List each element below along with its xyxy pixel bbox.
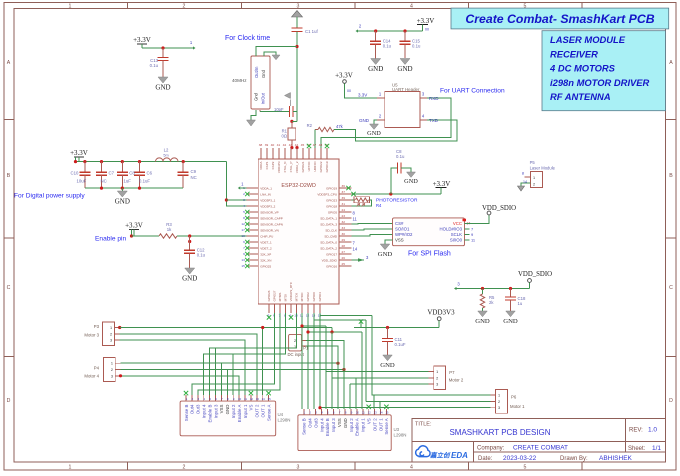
svg-text:2: 2	[533, 183, 535, 187]
svg-text:4: 4	[410, 464, 413, 470]
svg-text:VDD3P3: VDD3P3	[277, 161, 281, 173]
svg-text:SENSOR_CAPN: SENSOR_CAPN	[260, 223, 283, 227]
svg-text:Out3: Out3	[196, 404, 201, 414]
svg-text:VSS: VSS	[219, 405, 224, 414]
svg-text:2: 2	[183, 464, 186, 470]
svg-text:Out/In: Out/In	[254, 66, 259, 78]
svg-text:SD_DATA_1: SD_DATA_1	[320, 217, 337, 221]
svg-text:CAP2: CAP2	[271, 161, 275, 169]
svg-text:Out3: Out3	[313, 418, 318, 428]
svg-text:REV:: REV:	[629, 428, 643, 434]
svg-text:R4: R4	[376, 203, 382, 208]
svg-text:Sheet:: Sheet:	[628, 446, 646, 452]
svg-text:VDDA_2: VDDA_2	[295, 161, 299, 173]
svg-text:41: 41	[277, 143, 281, 147]
svg-text:OUT 1: OUT 1	[378, 418, 383, 431]
svg-text:SD_CMD: SD_CMD	[324, 235, 338, 239]
svg-text:0.1u: 0.1u	[412, 43, 421, 48]
svg-text:1: 1	[69, 3, 72, 9]
svg-text:29: 29	[342, 238, 346, 242]
svg-text:NC: NC	[191, 175, 197, 180]
svg-text:U3: U3	[394, 427, 400, 432]
svg-text:TXD: TXD	[429, 118, 439, 123]
svg-text:OUT 2: OUT 2	[255, 404, 260, 417]
svg-text:3: 3	[111, 374, 113, 378]
svg-text:VSS: VSS	[337, 418, 342, 427]
svg-text:32: 32	[342, 220, 346, 224]
svg-text:Motor 2: Motor 2	[449, 378, 464, 383]
svg-text:SD_DATA_2: SD_DATA_2	[320, 247, 337, 251]
svg-text:GND: GND	[182, 274, 197, 282]
svg-text:3: 3	[297, 3, 300, 9]
svg-text:C6: C6	[147, 171, 153, 176]
svg-text:GND: GND	[155, 83, 170, 91]
svg-text:17: 17	[241, 228, 245, 232]
svg-text:GPIO4: GPIO4	[318, 292, 322, 302]
svg-text:+3.3V: +3.3V	[335, 72, 353, 80]
svg-text:1: 1	[436, 370, 438, 374]
svg-text:MTDO: MTDO	[300, 292, 304, 301]
svg-text:VDD3P3_2: VDD3P3_2	[260, 205, 275, 209]
svg-text:38: 38	[259, 143, 263, 147]
svg-text:47: 47	[313, 143, 317, 147]
svg-text:0.1u: 0.1u	[396, 154, 405, 159]
svg-text:C: C	[7, 285, 11, 291]
svg-text:10uF: 10uF	[77, 179, 87, 184]
svg-text:A: A	[669, 60, 673, 66]
svg-text:31: 31	[342, 202, 346, 206]
svg-text:12: 12	[250, 397, 254, 401]
svg-text:8: 8	[243, 216, 245, 220]
svg-text:C: C	[669, 285, 673, 291]
svg-text:Sense A: Sense A	[266, 405, 271, 421]
svg-text:0.1uF: 0.1uF	[139, 179, 150, 184]
svg-text:For UART Connection: For UART Connection	[440, 88, 505, 95]
svg-text:Motor 4: Motor 4	[84, 374, 99, 379]
svg-text:C7: C7	[109, 171, 115, 176]
svg-text:10pF: 10pF	[274, 107, 284, 112]
svg-text:13: 13	[256, 397, 260, 401]
svg-text:15: 15	[385, 411, 389, 415]
svg-text:GPIO23: GPIO23	[326, 199, 337, 203]
svg-text:+3.3V: +3.3V	[417, 17, 435, 25]
svg-text:CREATE COMBAT: CREATE COMBAT	[513, 445, 568, 452]
svg-text:32K_XP: 32K_XP	[260, 253, 271, 257]
svg-text:5m: 5m	[163, 154, 168, 158]
svg-text:GND: GND	[380, 362, 395, 369]
svg-text:44: 44	[295, 143, 299, 147]
svg-text:VDDA_1: VDDA_1	[260, 187, 272, 191]
svg-text:Input 3: Input 3	[331, 418, 336, 432]
svg-text:+3.3V: +3.3V	[133, 36, 151, 44]
svg-text:0Ω: 0Ω	[282, 134, 287, 139]
svg-text:EDA: EDA	[451, 451, 468, 460]
svg-text:GND: GND	[359, 118, 370, 123]
svg-text:Company:: Company:	[477, 446, 505, 452]
svg-text:A: A	[7, 60, 11, 66]
svg-text:4: 4	[243, 204, 245, 208]
svg-text:GPIO21: GPIO21	[301, 161, 305, 172]
svg-text:Out4: Out4	[308, 418, 313, 428]
svg-text:15: 15	[241, 264, 245, 268]
svg-text:1uF: 1uF	[124, 179, 132, 184]
svg-text:GND: GND	[404, 178, 418, 185]
svg-text:GND: GND	[378, 251, 393, 258]
svg-text:23: 23	[342, 214, 346, 218]
svg-text:13: 13	[374, 411, 378, 415]
svg-text:Input 4: Input 4	[202, 404, 207, 418]
svg-text:U4: U4	[278, 412, 284, 417]
svg-text:0.1uF: 0.1uF	[395, 342, 406, 347]
svg-text:Drawn By:: Drawn By:	[560, 456, 588, 462]
svg-text:GPIO19: GPIO19	[326, 187, 337, 191]
svg-text:24: 24	[342, 208, 346, 212]
svg-text:8: 8	[522, 172, 524, 176]
svg-text:GPIO25: GPIO25	[260, 265, 271, 269]
svg-text:SMASHKART PCB DESIGN: SMASHKART PCB DESIGN	[449, 428, 550, 437]
svg-text:GPIO16: GPIO16	[326, 265, 337, 269]
svg-text:39: 39	[342, 196, 346, 200]
svg-text:P6: P6	[511, 395, 517, 400]
svg-text:11: 11	[353, 217, 358, 222]
svg-text:SO/IO1: SO/IO1	[395, 227, 410, 232]
svg-text:1u: 1u	[518, 301, 523, 306]
svg-text:For SPI Flash: For SPI Flash	[408, 251, 451, 258]
svg-text:Gnd: Gnd	[261, 69, 266, 78]
svg-text:XTAL_P: XTAL_P	[289, 162, 293, 173]
svg-text:Out4: Out4	[190, 404, 195, 414]
svg-text:15: 15	[268, 397, 272, 401]
svg-text:Create Combat- SmashKart PCB: Create Combat- SmashKart PCB	[465, 12, 654, 26]
svg-text:Enable B: Enable B	[325, 418, 330, 436]
svg-text:VS: VS	[367, 418, 372, 424]
svg-text:UART Header: UART Header	[392, 87, 420, 92]
svg-text:Enable A: Enable A	[237, 405, 242, 423]
svg-text:Sense B: Sense B	[302, 418, 307, 435]
svg-text:1: 1	[110, 326, 112, 330]
svg-text:Enable pin: Enable pin	[95, 236, 126, 243]
svg-text:GND: GND	[503, 318, 518, 325]
svg-text:47k: 47k	[336, 124, 344, 129]
svg-text:ESP32-D2WD: ESP32-D2WD	[281, 183, 316, 189]
svg-text:Motor 1: Motor 1	[510, 404, 525, 409]
svg-text:GPIO27: GPIO27	[273, 290, 277, 301]
svg-text:+3.3V: +3.3V	[433, 180, 451, 188]
svg-text:RF ANTENNA: RF ANTENNA	[550, 91, 611, 102]
svg-text:Sense A: Sense A	[384, 418, 389, 434]
svg-text:VS: VS	[249, 405, 254, 411]
svg-text:VDD_SDIO: VDD_SDIO	[322, 259, 338, 263]
svg-text:SENSOR_VN: SENSOR_VN	[260, 229, 279, 233]
svg-text:B: B	[7, 173, 11, 179]
svg-text:MTDI: MTDI	[284, 294, 288, 301]
svg-text:2: 2	[294, 339, 296, 343]
svg-text:VDD3P3_1: VDD3P3_1	[260, 199, 275, 203]
svg-text:Sense B: Sense B	[184, 405, 189, 422]
svg-text:40MHz: 40MHz	[232, 78, 247, 83]
svg-text:3: 3	[110, 339, 112, 343]
svg-text:11: 11	[244, 397, 247, 401]
svg-text:GPIO19: GPIO19	[325, 161, 329, 172]
svg-text:U0RXD: U0RXD	[313, 161, 317, 172]
svg-text:1: 1	[111, 362, 113, 366]
svg-text:D: D	[669, 398, 673, 404]
svg-text:2: 2	[243, 192, 245, 196]
svg-text:1.0: 1.0	[648, 427, 657, 434]
svg-text:VDD3V3: VDD3V3	[427, 309, 455, 317]
svg-text:39: 39	[265, 143, 269, 147]
svg-text:1: 1	[498, 394, 500, 398]
svg-text:28: 28	[342, 244, 346, 248]
svg-text:VDET_2: VDET_2	[260, 247, 272, 251]
svg-text:3: 3	[436, 383, 438, 387]
svg-text:VSS: VSS	[395, 238, 404, 243]
svg-text:36: 36	[342, 184, 346, 188]
svg-text:i298n MOTOR DRIVER: i298n MOTOR DRIVER	[550, 77, 650, 88]
svg-text:LASER MODULE: LASER MODULE	[550, 34, 626, 45]
svg-text:Input 2: Input 2	[349, 418, 354, 432]
svg-text:SD_CLK: SD_CLK	[325, 229, 337, 233]
svg-text:1: 1	[69, 464, 72, 470]
svg-text:2: 2	[436, 376, 438, 380]
svg-text:GPIO18: GPIO18	[326, 205, 337, 209]
svg-text:For Digital power supply: For Digital power supply	[14, 193, 85, 200]
svg-text:嘉立创: 嘉立创	[429, 452, 451, 460]
svg-text:GPIO26: GPIO26	[267, 290, 271, 301]
svg-text:HOLD#/IO3: HOLD#/IO3	[440, 227, 463, 232]
svg-text:45: 45	[301, 143, 305, 147]
svg-text:LNA_IN: LNA_IN	[260, 193, 271, 197]
svg-text:SD_DATA_0: SD_DATA_0	[320, 241, 337, 245]
svg-text:11: 11	[362, 411, 365, 415]
svg-text:RXD: RXD	[429, 96, 439, 101]
svg-text:P4: P4	[94, 366, 100, 371]
svg-text:R2: R2	[307, 123, 313, 128]
svg-text:Input 3: Input 3	[213, 404, 218, 418]
svg-text:SENSOR_VP: SENSOR_VP	[260, 211, 278, 215]
svg-text:10: 10	[241, 234, 245, 238]
svg-text:2: 2	[498, 400, 500, 404]
svg-text:VDD_SDIO: VDD_SDIO	[482, 205, 516, 212]
svg-text:CAP1: CAP1	[265, 161, 269, 169]
svg-text:1: 1	[533, 176, 535, 180]
svg-text:2: 2	[111, 368, 113, 372]
svg-text:Laser Module: Laser Module	[530, 165, 556, 170]
svg-text:32K_XN: 32K_XN	[260, 259, 271, 263]
svg-text:12: 12	[241, 222, 245, 226]
svg-text:GND: GND	[475, 318, 490, 325]
svg-text:GPIO0: GPIO0	[312, 292, 316, 302]
svg-text:In/Out: In/Out	[261, 92, 266, 104]
svg-text:30: 30	[342, 232, 346, 236]
svg-text:3: 3	[498, 406, 500, 410]
svg-text:VDD3P3_CPU: VDD3P3_CPU	[317, 193, 337, 197]
svg-text:GPIO5: GPIO5	[328, 211, 338, 215]
svg-text:10: 10	[356, 411, 360, 415]
svg-text:For Clock time: For Clock time	[225, 35, 270, 42]
svg-text:Enable A: Enable A	[355, 418, 360, 436]
svg-text:37: 37	[342, 190, 346, 194]
svg-text:2023-03-22: 2023-03-22	[503, 455, 537, 462]
svg-text:P3: P3	[94, 324, 100, 329]
svg-text:10: 10	[238, 397, 242, 401]
svg-text:SI/IO0: SI/IO0	[450, 238, 463, 243]
svg-text:14: 14	[262, 397, 266, 401]
svg-text:GND: GND	[115, 197, 130, 205]
svg-text:GND: GND	[367, 130, 381, 137]
svg-text:6: 6	[243, 240, 245, 244]
svg-text:OUT 1: OUT 1	[261, 404, 266, 417]
svg-text:25: 25	[342, 262, 346, 266]
svg-text:OUT 2: OUT 2	[372, 418, 377, 431]
svg-text:+3.3V: +3.3V	[70, 149, 88, 157]
svg-text:26: 26	[342, 256, 346, 260]
svg-text:C10: C10	[71, 171, 79, 176]
svg-text:43: 43	[289, 143, 293, 147]
svg-text:C8: C8	[129, 171, 135, 176]
svg-text:0.1u: 0.1u	[383, 43, 392, 48]
svg-text:7: 7	[243, 246, 245, 250]
svg-text:2: 2	[183, 3, 186, 9]
svg-text:0.1u: 0.1u	[150, 63, 159, 68]
svg-text:TITLE:: TITLE:	[415, 422, 432, 428]
svg-text:WP#/IO2: WP#/IO2	[395, 232, 413, 237]
svg-text:5: 5	[524, 464, 527, 470]
svg-text:14: 14	[353, 247, 358, 252]
svg-text:GPIO17: GPIO17	[326, 253, 337, 257]
svg-text:1/1: 1/1	[652, 445, 661, 452]
svg-text:VCC: VCC	[453, 221, 462, 226]
svg-text:12: 12	[368, 411, 372, 415]
svg-text:L298N: L298N	[278, 418, 291, 423]
svg-text:48: 48	[319, 143, 323, 147]
svg-text:C9: C9	[191, 169, 197, 174]
svg-text:3: 3	[297, 464, 300, 470]
svg-text:42: 42	[283, 143, 287, 147]
svg-text:VDET_1: VDET_1	[260, 241, 272, 245]
svg-text:L2: L2	[164, 148, 169, 153]
svg-text:GPIO2: GPIO2	[306, 292, 310, 302]
svg-text:ABHISHEK: ABHISHEK	[599, 455, 633, 462]
svg-text:27: 27	[342, 250, 346, 254]
svg-text:RECEIVER: RECEIVER	[550, 48, 598, 59]
svg-text:XTAL_N: XTAL_N	[283, 162, 287, 173]
svg-text:00: 00	[347, 89, 351, 93]
svg-text:Input 4: Input 4	[319, 418, 324, 432]
svg-text:MTMS: MTMS	[278, 293, 282, 302]
svg-text:+3.3V: +3.3V	[125, 222, 143, 230]
svg-text:4: 4	[410, 3, 413, 9]
svg-text:3: 3	[243, 198, 245, 202]
svg-text:CHIP_PU: CHIP_PU	[260, 235, 273, 239]
svg-text:P7: P7	[449, 370, 455, 375]
svg-text:3.3V: 3.3V	[358, 93, 367, 98]
svg-text:B: B	[669, 173, 673, 179]
svg-text:2: 2	[110, 332, 112, 336]
svg-text:14: 14	[379, 411, 383, 415]
svg-text:00: 00	[425, 28, 429, 32]
svg-text:CS#: CS#	[395, 221, 404, 226]
svg-text:NC: NC	[101, 179, 107, 184]
svg-text:Motor 3: Motor 3	[84, 333, 99, 338]
svg-text:Input 1: Input 1	[243, 404, 248, 418]
svg-text:33: 33	[342, 226, 346, 230]
svg-text:SENSOR_CAPP: SENSOR_CAPP	[260, 217, 283, 221]
svg-text:P5: P5	[530, 160, 536, 165]
svg-text:SD_DATA_3: SD_DATA_3	[320, 223, 337, 227]
svg-text:D: D	[7, 398, 11, 404]
svg-text:Enable B: Enable B	[207, 405, 212, 423]
svg-text:L298N: L298N	[394, 433, 407, 438]
svg-text:VDD3P3_RTC: VDD3P3_RTC	[289, 281, 293, 301]
svg-text:5: 5	[243, 210, 245, 214]
svg-text:Date:: Date:	[478, 456, 493, 462]
svg-text:Input 1: Input 1	[361, 418, 366, 432]
svg-text:Gnd: Gnd	[254, 92, 259, 101]
svg-text:PHOTORESISTOR: PHOTORESISTOR	[376, 198, 418, 204]
svg-text:VDD_SDIO: VDD_SDIO	[518, 271, 552, 278]
svg-text:MTCK: MTCK	[295, 293, 299, 302]
svg-text:40: 40	[271, 143, 275, 147]
svg-text:GND: GND	[397, 65, 412, 73]
svg-text:0.1u: 0.1u	[197, 252, 206, 257]
svg-text:U0TXD: U0TXD	[307, 161, 311, 172]
svg-text:GND: GND	[343, 418, 348, 428]
svg-text:Input 2: Input 2	[231, 404, 236, 418]
svg-text:13: 13	[241, 258, 245, 262]
svg-text:SCLK: SCLK	[451, 232, 462, 237]
svg-text:C1 1uf: C1 1uf	[305, 29, 318, 34]
svg-text:VDDA: VDDA	[259, 162, 263, 170]
svg-text:4 DC MOTORS: 4 DC MOTORS	[549, 63, 616, 74]
svg-text:9: 9	[243, 252, 245, 256]
svg-text:14: 14	[523, 180, 527, 184]
svg-text:GPIO22: GPIO22	[319, 161, 323, 172]
svg-text:GND: GND	[368, 65, 383, 73]
svg-text:GND: GND	[225, 405, 230, 415]
